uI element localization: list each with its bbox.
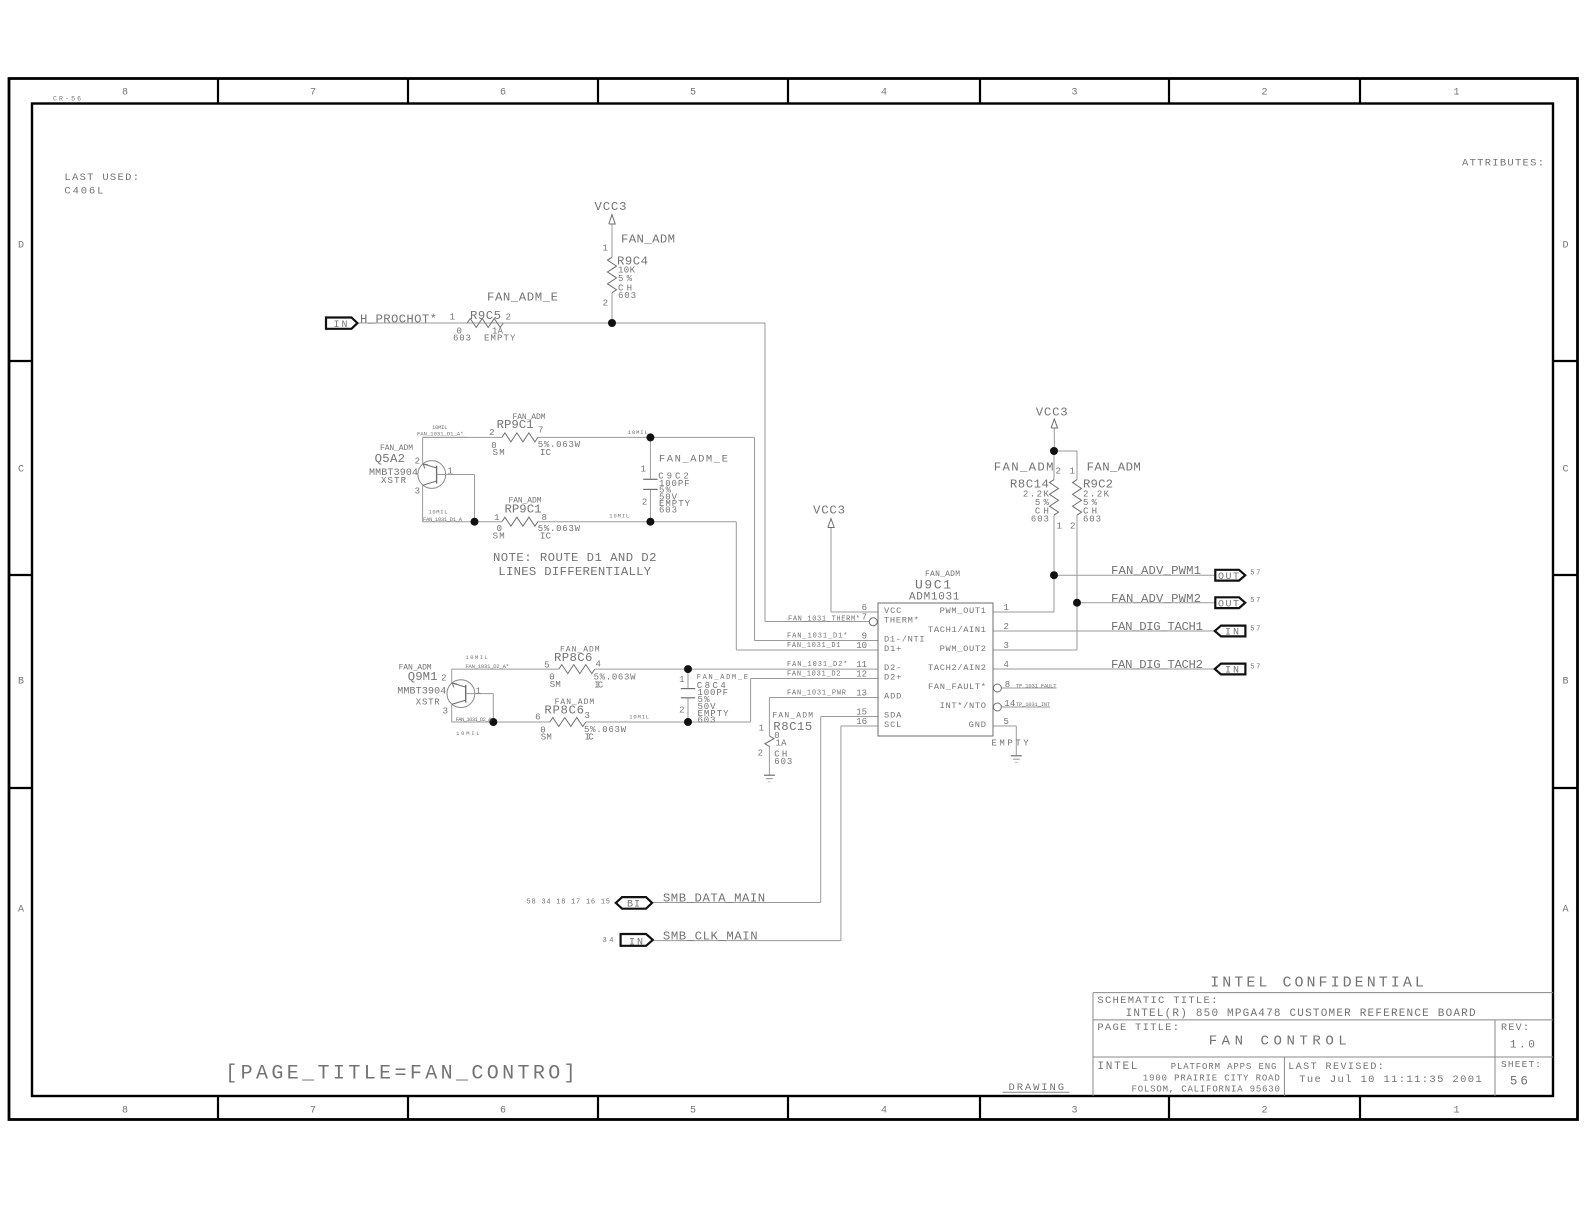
svg-text:RP9C1: RP9C1 xyxy=(505,502,542,516)
svg-text:VCC3: VCC3 xyxy=(1036,405,1068,419)
svg-text:INT*/NTO: INT*/NTO xyxy=(940,701,986,711)
svg-text:2: 2 xyxy=(441,673,446,683)
svg-text:Q9M1: Q9M1 xyxy=(408,670,438,684)
svg-text:REV:: REV: xyxy=(1501,1023,1529,1034)
svg-text:H_PROCHOT*: H_PROCHOT* xyxy=(360,313,437,327)
svg-text:FAN_ADM: FAN_ADM xyxy=(1087,460,1141,474)
svg-text:FAN_DIG_TACH2: FAN_DIG_TACH2 xyxy=(1111,658,1203,672)
svg-text:FAN_ADM: FAN_ADM xyxy=(621,233,675,247)
svg-text:VCC: VCC xyxy=(884,606,901,616)
svg-text:3: 3 xyxy=(585,711,590,721)
svg-text:1A: 1A xyxy=(776,738,788,748)
svg-text:SMB_DATA_MAIN: SMB_DATA_MAIN xyxy=(663,891,765,905)
svg-text:57: 57 xyxy=(1250,625,1260,633)
svg-text:2: 2 xyxy=(489,428,494,438)
svg-text:5: 5 xyxy=(1004,717,1009,727)
svg-text:2: 2 xyxy=(506,313,511,323)
svg-text:A: A xyxy=(18,905,24,916)
svg-text:LINES DIFFERENTIALLY: LINES DIFFERENTIALLY xyxy=(498,565,652,579)
svg-text:ATTRIBUTES:: ATTRIBUTES: xyxy=(1462,158,1544,170)
svg-text:603: 603 xyxy=(1083,514,1101,524)
svg-text:BI: BI xyxy=(627,900,640,911)
svg-text:FAN_1031_D1*: FAN_1031_D1* xyxy=(787,633,848,641)
svg-text:IC: IC xyxy=(540,448,552,458)
svg-text:2: 2 xyxy=(1070,521,1075,531)
svg-text:4: 4 xyxy=(1004,660,1009,670)
svg-text:4: 4 xyxy=(596,660,601,670)
svg-text:D: D xyxy=(1562,241,1568,252)
svg-text:IN: IN xyxy=(1225,666,1239,677)
svg-text:16: 16 xyxy=(856,717,867,727)
svg-text:13: 13 xyxy=(856,688,867,698)
svg-text:5: 5 xyxy=(690,1106,696,1117)
svg-text:57: 57 xyxy=(1250,570,1260,578)
svg-text:PWM_OUT2: PWM_OUT2 xyxy=(940,644,986,654)
svg-text:OUT: OUT xyxy=(1218,599,1239,610)
svg-text:FAN_1031_D1_A*: FAN_1031_D1_A* xyxy=(417,431,463,438)
svg-text:NOTE: ROUTE D1 AND D2: NOTE: ROUTE D1 AND D2 xyxy=(493,551,657,565)
svg-text:INTEL(R) 850 MPGA478 CUSTOMER: INTEL(R) 850 MPGA478 CUSTOMER REFERENCE … xyxy=(1126,1008,1476,1020)
svg-text:8: 8 xyxy=(122,88,128,99)
svg-text:SDA: SDA xyxy=(884,710,902,720)
svg-text:10MIL: 10MIL xyxy=(628,429,648,436)
svg-text:IN: IN xyxy=(629,938,643,949)
svg-text:SCL: SCL xyxy=(884,720,901,730)
svg-text:XSTR: XSTR xyxy=(381,476,407,486)
svg-text:FAN_1031_D2_A*: FAN_1031_D2_A* xyxy=(465,663,509,670)
svg-text:R9C5: R9C5 xyxy=(470,309,501,323)
svg-text:FAN_FAULT*: FAN_FAULT* xyxy=(928,682,986,692)
svg-text:12: 12 xyxy=(856,669,867,679)
svg-text:7: 7 xyxy=(310,1106,316,1117)
svg-text:XSTR: XSTR xyxy=(416,698,440,708)
svg-text:LAST USED:: LAST USED: xyxy=(64,172,139,184)
svg-text:LAST REVISED:: LAST REVISED: xyxy=(1288,1062,1384,1073)
svg-text:FAN_ADM_E: FAN_ADM_E xyxy=(487,291,558,305)
svg-text:3: 3 xyxy=(1071,1106,1077,1117)
svg-text:SM: SM xyxy=(541,733,552,743)
svg-text:FAN_1031_THERM*: FAN_1031_THERM* xyxy=(788,615,860,623)
svg-text:PAGE TITLE:: PAGE TITLE: xyxy=(1097,1022,1179,1034)
svg-text:1: 1 xyxy=(603,244,608,254)
svg-text:FAN_1031_D2_A: FAN_1031_D2_A xyxy=(456,716,492,723)
svg-text:8: 8 xyxy=(1005,680,1010,690)
svg-text:RP8C6: RP8C6 xyxy=(544,704,584,718)
svg-text:3: 3 xyxy=(1004,641,1009,651)
svg-text:603: 603 xyxy=(698,716,716,726)
svg-text:FAN_1031_D2*: FAN_1031_D2* xyxy=(787,661,848,669)
svg-text:2: 2 xyxy=(1261,88,1267,99)
svg-text:8: 8 xyxy=(122,1106,128,1117)
svg-text:1: 1 xyxy=(448,467,453,477)
svg-text:U9C1: U9C1 xyxy=(915,578,951,593)
svg-text:4: 4 xyxy=(881,1106,887,1117)
svg-text:B: B xyxy=(18,677,24,688)
svg-text:6: 6 xyxy=(862,603,867,613)
svg-text:3: 3 xyxy=(415,487,420,497)
svg-text:6: 6 xyxy=(500,1106,506,1117)
svg-text:2: 2 xyxy=(415,456,420,466)
svg-text:603: 603 xyxy=(774,757,792,767)
svg-text:4: 4 xyxy=(881,88,887,99)
svg-text:10MIL: 10MIL xyxy=(428,509,447,516)
svg-text:GND: GND xyxy=(969,720,986,730)
svg-text:10MIL: 10MIL xyxy=(629,714,649,721)
svg-text:14: 14 xyxy=(1004,699,1015,709)
svg-text:1.0: 1.0 xyxy=(1510,1040,1535,1052)
svg-text:FAN CONTROL: FAN CONTROL xyxy=(1209,1033,1347,1049)
svg-text:2: 2 xyxy=(1004,622,1009,632)
svg-text:SHEET:: SHEET: xyxy=(1501,1059,1541,1070)
svg-text:10: 10 xyxy=(856,641,867,651)
svg-text:2: 2 xyxy=(642,498,647,508)
svg-text:PWM_OUT1: PWM_OUT1 xyxy=(940,606,986,616)
svg-text:ADM1031: ADM1031 xyxy=(909,592,960,604)
svg-text:2: 2 xyxy=(603,299,608,309)
svg-text:5: 5 xyxy=(544,661,549,671)
svg-text:FAN_1031_D1_A: FAN_1031_D1_A xyxy=(423,516,463,523)
svg-text:IN: IN xyxy=(334,320,348,331)
svg-text:VCC3: VCC3 xyxy=(813,504,845,518)
svg-text:THERM*: THERM* xyxy=(884,615,919,625)
svg-text:Tue Jul 10 11:11:35 2001: Tue Jul 10 11:11:35 2001 xyxy=(1299,1074,1482,1086)
svg-text:SM: SM xyxy=(493,448,505,458)
svg-text:FOLSOM, CALIFORNIA 95630: FOLSOM, CALIFORNIA 95630 xyxy=(1132,1085,1280,1095)
svg-text:PLATFORM APPS ENG: PLATFORM APPS ENG xyxy=(1171,1062,1277,1072)
svg-text:D2+: D2+ xyxy=(884,672,901,682)
svg-text:7: 7 xyxy=(862,612,867,622)
svg-text:1: 1 xyxy=(1453,1106,1459,1117)
svg-text:3: 3 xyxy=(443,707,448,717)
svg-text:15: 15 xyxy=(856,707,867,717)
svg-text:57: 57 xyxy=(1250,663,1260,671)
svg-text:57: 57 xyxy=(1250,597,1260,605)
svg-text:1: 1 xyxy=(641,464,646,474)
svg-text:D2-: D2- xyxy=(884,663,901,673)
svg-text:Q5A2: Q5A2 xyxy=(375,452,405,466)
svg-text:SM: SM xyxy=(550,680,561,690)
svg-text:FAN_ADV_PWM2: FAN_ADV_PWM2 xyxy=(1111,592,1201,606)
svg-text:EMPTY: EMPTY xyxy=(484,334,516,344)
svg-text:TACH2/AIN2: TACH2/AIN2 xyxy=(928,663,986,673)
svg-text:FAN_ADM_E: FAN_ADM_E xyxy=(659,453,728,465)
svg-text:1: 1 xyxy=(494,513,499,523)
svg-text:B: B xyxy=(1562,677,1568,688)
svg-text:7: 7 xyxy=(310,88,316,99)
svg-text:1: 1 xyxy=(476,687,481,697)
svg-text:IC: IC xyxy=(594,681,604,691)
svg-text:10MIL: 10MIL xyxy=(609,513,629,520)
svg-text:FAN_1031_D1: FAN_1031_D1 xyxy=(787,642,841,650)
svg-text:C: C xyxy=(1562,465,1568,476)
svg-text:1: 1 xyxy=(450,313,455,323)
svg-text:1: 1 xyxy=(679,675,684,685)
svg-text:SCHEMATIC TITLE:: SCHEMATIC TITLE: xyxy=(1097,995,1217,1007)
svg-text:C406L: C406L xyxy=(64,186,103,198)
svg-text:A: A xyxy=(1562,905,1568,916)
svg-text:1: 1 xyxy=(1004,603,1009,613)
svg-text:RP8C6: RP8C6 xyxy=(554,651,592,665)
svg-text:MMBT3904: MMBT3904 xyxy=(397,686,446,697)
svg-text:FAN_ADM: FAN_ADM xyxy=(994,460,1054,474)
svg-text:7: 7 xyxy=(538,425,543,435)
svg-text:9: 9 xyxy=(862,631,867,641)
svg-text:IN: IN xyxy=(1225,628,1239,639)
svg-text:[PAGE_TITLE=FAN_CONTRO]: [PAGE_TITLE=FAN_CONTRO] xyxy=(225,1063,575,1086)
svg-text:6: 6 xyxy=(535,713,540,723)
svg-text:OUT: OUT xyxy=(1218,572,1239,583)
svg-text:SMB_CLK_MAIN: SMB_CLK_MAIN xyxy=(663,929,758,943)
svg-text:1: 1 xyxy=(1057,521,1062,531)
svg-text:2: 2 xyxy=(1261,1106,1267,1117)
svg-text:TP_1031_INT: TP_1031_INT xyxy=(1016,701,1051,708)
svg-text:2: 2 xyxy=(758,749,763,759)
svg-text:TACH1/AIN1: TACH1/AIN1 xyxy=(928,625,986,635)
svg-text:C: C xyxy=(18,465,24,476)
svg-text:603: 603 xyxy=(659,506,677,516)
svg-text:1900 PRAIRIE CITY ROAD: 1900 PRAIRIE CITY ROAD xyxy=(1143,1074,1280,1084)
svg-text:58 34 18 17 16 15: 58 34 18 17 16 15 xyxy=(527,899,611,907)
svg-text:1: 1 xyxy=(1453,88,1459,99)
svg-text:RP9C1: RP9C1 xyxy=(497,418,534,432)
svg-text:11: 11 xyxy=(856,660,867,670)
svg-text:FAN_ADV_PWM1: FAN_ADV_PWM1 xyxy=(1111,564,1201,578)
svg-text:603: 603 xyxy=(1031,514,1049,524)
svg-text:3: 3 xyxy=(1071,88,1077,99)
svg-text:IC: IC xyxy=(540,532,552,542)
svg-text:D1-/NTI: D1-/NTI xyxy=(884,634,925,644)
svg-text:5: 5 xyxy=(690,88,696,99)
svg-text:8: 8 xyxy=(542,513,547,523)
svg-text:IC: IC xyxy=(585,733,595,743)
svg-text:D1+: D1+ xyxy=(884,644,901,654)
svg-text:INTEL: INTEL xyxy=(1097,1061,1137,1073)
svg-text:D: D xyxy=(18,241,24,252)
svg-text:VCC3: VCC3 xyxy=(595,200,627,214)
svg-text:FAN_DIG_TACH1: FAN_DIG_TACH1 xyxy=(1111,620,1203,634)
svg-text:ADD: ADD xyxy=(884,691,901,701)
svg-text:SM: SM xyxy=(493,532,505,542)
svg-text:6: 6 xyxy=(500,88,506,99)
svg-text:FAN_1031_PWR: FAN_1031_PWR xyxy=(787,690,847,698)
svg-text:603: 603 xyxy=(618,291,636,301)
svg-text:TP_1031_FAULT: TP_1031_FAULT xyxy=(1016,682,1057,689)
svg-text:603: 603 xyxy=(453,334,471,344)
svg-text:1: 1 xyxy=(759,724,764,734)
svg-text:1: 1 xyxy=(1070,466,1075,476)
svg-text:2: 2 xyxy=(679,705,684,715)
svg-text:2: 2 xyxy=(1056,466,1061,476)
svg-text:FAN_1031_D2: FAN_1031_D2 xyxy=(787,671,841,679)
